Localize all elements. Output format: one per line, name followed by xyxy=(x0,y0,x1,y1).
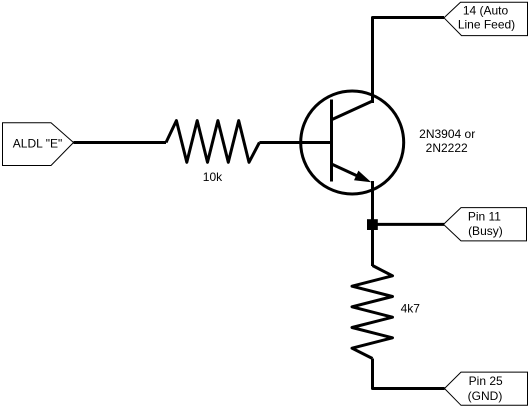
svg-text:2N2222: 2N2222 xyxy=(426,141,468,155)
svg-text:4k7: 4k7 xyxy=(401,302,421,316)
svg-text:2N3904 or: 2N3904 or xyxy=(419,127,475,141)
svg-text:(GND): (GND) xyxy=(468,389,503,403)
svg-text:Pin 25: Pin 25 xyxy=(469,374,503,388)
svg-text:10k: 10k xyxy=(203,170,223,184)
svg-text:(Busy): (Busy) xyxy=(468,224,503,238)
svg-text:14 (Auto: 14 (Auto xyxy=(463,3,509,17)
svg-text:Line Feed): Line Feed) xyxy=(458,17,515,31)
svg-text:ALDL "E": ALDL "E" xyxy=(13,137,62,151)
svg-text:Pin 11: Pin 11 xyxy=(468,210,501,224)
